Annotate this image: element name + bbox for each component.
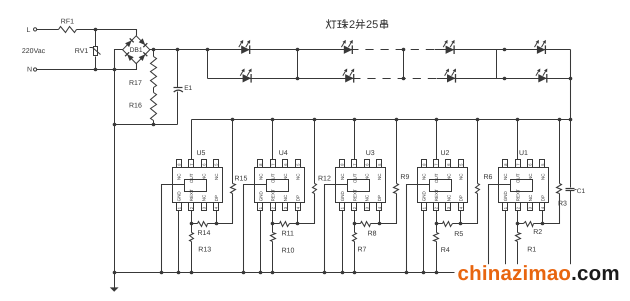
wire DP pin U4 down (297, 211, 299, 224)
LED D7 (bottom row) (447, 74, 456, 82)
svg-text:R6: R6 (484, 174, 493, 181)
wire bridge left vertex to N junction (115, 50, 123, 70)
svg-text:R14: R14 (198, 230, 211, 237)
svg-text:DP: DP (540, 195, 545, 201)
wire OUT pin of U3 to rail (354, 120, 356, 160)
wire DP pin U2 down (460, 211, 462, 224)
wire GND pin U5 to ground rail (178, 211, 180, 273)
junction R9 / OUT rail (395, 118, 399, 122)
junction REXT node U5 (190, 222, 194, 226)
svg-text:REXT: REXT (516, 189, 521, 201)
wire LED top row solid segment 2 (435, 49, 571, 51)
svg-text:NC: NC (365, 194, 370, 201)
wire die input U2 (407, 185, 430, 273)
junction DP node U4 (296, 222, 300, 226)
svg-text:OUT: OUT (516, 173, 521, 183)
wire die input U3 (325, 185, 348, 273)
svg-text:REXT: REXT (271, 189, 276, 201)
junction OUT drop U2 (435, 118, 439, 122)
svg-text:GND: GND (340, 191, 345, 202)
junction R6 / OUT rail (476, 118, 480, 122)
junction die wire / ground rail (405, 271, 409, 275)
svg-text:NC: NC (528, 173, 533, 180)
wire N to bridge (37, 69, 115, 71)
junction bars top/bottom (296, 48, 300, 52)
junction R15 / OUT rail (231, 118, 235, 122)
junction ground rail left (113, 271, 117, 275)
svg-text:NC: NC (446, 173, 451, 180)
wire L to RF1 (37, 29, 59, 31)
svg-text:RV1: RV1 (75, 48, 89, 55)
svg-text:GND: GND (422, 191, 427, 202)
junction LED output / bottom row (569, 77, 573, 81)
junction LED array start top (206, 48, 210, 52)
junction DP node U3 (378, 222, 382, 226)
svg-text:OUT: OUT (434, 173, 439, 183)
svg-text:220Vac: 220Vac (22, 48, 46, 55)
wire DP pin U3 down (379, 211, 381, 224)
wire bridge right vertex to DC+ line (150, 49, 208, 51)
op-amp U2 driver IC U2 (418, 150, 468, 211)
wire LED parallel bar (297, 50, 299, 79)
op-amp U3 driver IC U3 (336, 150, 386, 211)
svg-text:NC: NC (258, 173, 263, 180)
svg-text:C1: C1 (577, 188, 586, 195)
wire die input U4 (244, 185, 267, 273)
wire LED bottom row solid segment 1 (208, 78, 361, 80)
LED D3 (top row) (446, 46, 455, 54)
svg-text:NC: NC (214, 173, 219, 180)
junction R10 / ground rail (271, 271, 275, 275)
svg-text:REXT: REXT (352, 189, 357, 201)
wire OUT pin of U2 to rail (436, 120, 438, 160)
svg-text:DP: DP (296, 195, 301, 201)
wire GND pin U3 to ground rail (342, 211, 344, 273)
LED D5 (bottom row) (243, 74, 252, 82)
wire REXT pin U3 down (354, 211, 356, 224)
svg-text:NC: NC (202, 194, 207, 201)
junction GND U3 / ground rail (341, 271, 345, 275)
junction die wire / ground rail (160, 271, 164, 275)
svg-text:DB1: DB1 (130, 47, 143, 54)
svg-text:R16: R16 (129, 102, 142, 109)
wire ground rail (115, 272, 571, 274)
junction REXT node U4 (271, 222, 275, 226)
svg-text:NC: NC (283, 173, 288, 180)
svg-text:R8: R8 (368, 231, 377, 238)
junction RV1 bottom on N wire (94, 68, 98, 72)
wire OUT pin of U1 to rail (517, 120, 519, 160)
svg-text:GND: GND (503, 191, 508, 202)
junction GND U4 / ground rail (259, 271, 263, 275)
wire LED bottom row dashed segment (361, 78, 437, 80)
svg-text:OUT: OUT (352, 173, 357, 183)
wire die input U5 (162, 185, 185, 273)
wire REXT pin U1 down (517, 211, 519, 224)
junction GND U1 / ground rail (504, 271, 508, 275)
wire OUT bus rail (192, 119, 571, 121)
svg-text:GND: GND (258, 191, 263, 202)
junction R4 / ground rail (435, 271, 439, 275)
junction REXT node U2 (435, 222, 439, 226)
junction R12 / OUT rail (313, 118, 317, 122)
LED D1 (top row) (241, 46, 250, 54)
wire bridge bottom vertex to N junction (115, 64, 137, 70)
LED D4 (top row) (537, 46, 546, 54)
svg-text:U1: U1 (519, 150, 528, 157)
svg-text:R13: R13 (198, 247, 211, 254)
wire ground column (left vertical down to ground rail) (114, 70, 116, 273)
label title LED string (4 CJK glyphs drawn as strokes + digits) (326, 20, 348, 29)
svg-text:U3: U3 (366, 150, 375, 157)
wire LED string output (right vertical) (570, 50, 572, 120)
wire LED parallel bar (496, 50, 498, 79)
junction DP node U2 (459, 222, 463, 226)
svg-text:NC: NC (540, 173, 545, 180)
svg-text:NC: NC (422, 173, 427, 180)
wire GND pin U2 to ground rail (423, 211, 425, 273)
svg-text:NC: NC (283, 194, 288, 201)
wire OUT pin of U5 to rail (191, 120, 193, 160)
junction ground column / E1 rail (113, 123, 117, 127)
svg-text:25: 25 (366, 19, 378, 31)
wire GND pin U1 to ground rail (505, 211, 507, 273)
svg-text:NC: NC (296, 173, 301, 180)
junction R13 / ground rail (190, 271, 194, 275)
junction R7 / ground rail (353, 271, 357, 275)
junction OUT drop U4 (271, 118, 275, 122)
junction DP node U1 (541, 222, 545, 226)
wire OUT pin of U4 to rail (272, 120, 274, 160)
svg-text:NC: NC (446, 194, 451, 201)
svg-text:R4: R4 (441, 247, 450, 254)
wire LED parallel bar (403, 50, 405, 79)
junction die wire / ground rail (487, 271, 491, 275)
svg-text:R17: R17 (129, 80, 142, 87)
junction R1 / ground rail (516, 271, 520, 275)
LED D8 (bottom row) (538, 74, 547, 82)
junction R17 top (152, 48, 156, 52)
svg-text:R15: R15 (235, 176, 248, 183)
svg-text:NC: NC (528, 194, 533, 201)
svg-text:L: L (27, 27, 31, 34)
svg-text:REXT: REXT (189, 189, 194, 201)
svg-text:NC: NC (340, 173, 345, 180)
svg-text:DP: DP (214, 195, 219, 201)
op-amp U5 driver IC U5 (173, 150, 223, 211)
op-amp U1 driver IC U1 (499, 150, 549, 211)
svg-text:R12: R12 (318, 176, 331, 183)
wire DP pin U5 down (216, 211, 218, 224)
wire LED bottom row solid segment 2 (437, 78, 571, 80)
junction die wire / ground rail (323, 271, 327, 275)
junction N / bridge left / ground column (113, 68, 117, 72)
wire LED top row solid segment 1 (208, 49, 359, 51)
bridge rectifier DB1 (123, 36, 150, 64)
wire REXT pin U4 down (272, 211, 274, 224)
svg-text:R9: R9 (400, 174, 409, 181)
wire RF1 to bridge top (77, 30, 137, 36)
junction OUT drop U3 (353, 118, 357, 122)
wire E1 bottom rail (115, 124, 178, 126)
svg-text:NC: NC (503, 173, 508, 180)
svg-text:R11: R11 (282, 231, 294, 238)
watermark background (455, 264, 623, 286)
junction E1 top (176, 48, 180, 52)
op-amp U4 driver IC U4 (255, 150, 305, 211)
junction OUT drop U1 (516, 118, 520, 122)
svg-text:R7: R7 (358, 246, 367, 253)
junction GND U5 / ground rail (177, 271, 181, 275)
wire die input U1 (489, 185, 511, 273)
junction R16 bottom (152, 123, 156, 127)
svg-text:NC: NC (202, 173, 207, 180)
svg-text:RF1: RF1 (61, 18, 74, 25)
svg-text:NC: NC (365, 173, 370, 180)
svg-text:DP: DP (459, 195, 464, 201)
junction DP node U5 (215, 222, 219, 226)
wire REXT pin U5 down (191, 211, 193, 224)
junction REXT node U1 (516, 222, 520, 226)
svg-text:NC: NC (177, 173, 182, 180)
svg-text:DP: DP (377, 195, 382, 201)
junction OUT rail / LED output (569, 118, 573, 122)
junction R3 / OUT rail (558, 118, 562, 122)
wire LED array start bar (207, 50, 209, 79)
svg-text:U4: U4 (279, 150, 288, 157)
wire REXT pin U2 down (436, 211, 438, 224)
svg-text:OUT: OUT (189, 173, 194, 183)
svg-text:chinazimao.com: chinazimao.com (458, 262, 620, 285)
junction RV1 top (94, 28, 98, 32)
svg-text:GND: GND (177, 191, 182, 202)
svg-text:OUT: OUT (271, 173, 276, 183)
svg-text:U5: U5 (197, 150, 206, 157)
LED D2 (top row) (344, 46, 353, 54)
svg-text:2: 2 (349, 19, 355, 31)
svg-text:REXT: REXT (434, 189, 439, 201)
svg-text:R10: R10 (282, 247, 295, 254)
svg-text:U2: U2 (441, 150, 450, 157)
ground (114, 273, 116, 289)
svg-text:R5: R5 (454, 231, 463, 238)
wire LED top row dashed segment (359, 49, 435, 51)
svg-text:NC: NC (377, 173, 382, 180)
junction die wire / ground rail (242, 271, 246, 275)
wire GND pin U4 to ground rail (260, 211, 262, 273)
svg-text:E1: E1 (184, 85, 192, 92)
LED D6 (bottom row) (345, 74, 354, 82)
wire DP pin U1 down (542, 211, 544, 224)
svg-text:R1: R1 (527, 247, 536, 254)
svg-text:R2: R2 (533, 229, 542, 236)
svg-text:N: N (27, 67, 32, 74)
svg-text:NC: NC (459, 173, 464, 180)
junction GND U2 / ground rail (422, 271, 426, 275)
junction REXT node U3 (353, 222, 357, 226)
